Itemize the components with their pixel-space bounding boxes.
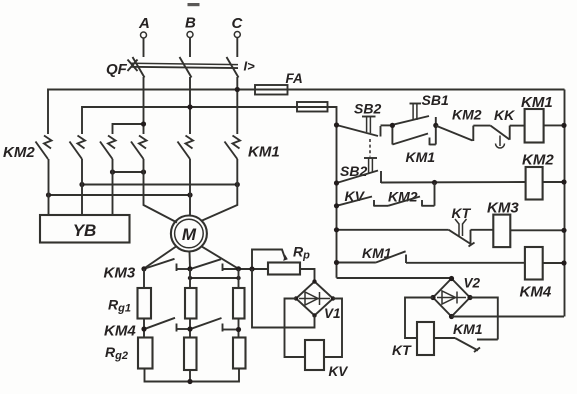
svg-text:KM4: KM4 [520,284,552,301]
resistor Rg1 phase 1 [138,288,152,319]
svg-text:I>: I> [244,59,256,74]
wire motor lead C [201,159,237,221]
svg-text:KM1: KM1 [406,149,436,165]
contactor KM4 contact 1 [145,318,190,332]
svg-text:FA: FA [286,71,303,86]
rectifier V2 [430,276,480,320]
wire V1 right to KV [324,299,342,358]
node row3 bus junction [334,227,339,232]
wire rotor column 1 middle [143,319,145,338]
wire phase A feeder to KM2 [113,124,144,134]
wire Rp to V1 top [300,269,315,282]
node row1 bus junction [334,122,339,127]
junction motor lead B [187,192,192,197]
wire KM2 output 2 to YB [81,159,83,215]
relay coil KT [392,322,434,358]
scan smudge top [188,3,200,6]
break contact KM1 at V2 [453,321,498,352]
wire rotor lead 3 [202,246,239,268]
wire C terminal to QF [236,38,238,58]
wire KM2 output 3 to YB [112,159,114,215]
wire A terminal to QF [143,38,145,57]
svg-text:SB2: SB2 [354,101,381,117]
wire phase C QF to KM1 contact [236,77,238,134]
svg-text:KM2: KM2 [522,152,554,169]
wire link KM2-2 to phase C column [82,184,237,186]
junction rotor lead 1 [141,266,146,271]
junction KM2-1 output [46,192,51,197]
wire KM1 contact to V2 right [470,298,498,340]
time relay contact KT [449,205,494,247]
resistor Rg1 phase 3 [233,288,245,319]
node row2 bus junction [334,180,339,185]
junction rotor lead 3 [236,266,241,271]
wire bus to V2 top [337,277,452,279]
svg-text:KM1: KM1 [248,144,280,161]
resistor Rg1 phase 2 [185,288,197,319]
node row2 KV branch junction [432,180,437,185]
wire rotor column 2 upper [189,269,191,288]
junction rotor lead 2 [187,266,192,271]
wire motor lead B [189,159,191,216]
contactor KM3 contact 2 [191,259,268,271]
svg-text:C: C [232,15,244,32]
wire phase B QF to KM1 contact [189,77,191,134]
contactor coil KM2 [522,152,567,200]
thermal relay contact KK [491,107,525,148]
junction KM2-2 output [79,182,84,187]
svg-text:KT: KT [392,342,412,358]
junction motor lead C [235,182,240,187]
contactor coil KM4 [520,247,567,301]
svg-text:A: A [138,15,150,32]
svg-text:SB2: SB2 [340,163,367,179]
contactor KM3 contact 1 [145,259,190,271]
svg-text:V1: V1 [324,306,341,321]
svg-text:KM3: KM3 [104,265,136,282]
fuse FA [255,71,303,95]
svg-text:KM4: KM4 [104,323,136,340]
rheostat Rp [249,244,310,275]
wire V2 left to KT coil [405,298,433,339]
wire rotor column 3 upper [238,269,240,288]
wire row3 from bus [337,229,449,231]
node row4 bus junction [334,260,339,265]
node C terminal [232,15,244,38]
motor M [171,216,207,252]
wire dashed SB2 link [369,139,371,157]
contactor KM4 contact 2 [191,318,239,332]
pushbutton SB1 start [393,92,449,125]
junction KM4 column 3 [236,327,241,332]
wire rotor lead 1 [144,246,176,268]
node junction A [141,121,146,126]
relay coil KV [305,340,348,379]
svg-text:M: M [182,225,197,244]
wire rotor column 1 upper [143,269,145,288]
contactor KM1 main contact 1 [131,136,147,160]
wire V2 bottom to right bus [452,316,565,318]
contactor KM2 main contact 1 [36,136,52,160]
wire motor lead A [144,159,178,223]
wire B terminal to QF [189,38,191,58]
wire row2 to KM2 coil [381,181,526,184]
junction column 3 link [236,276,240,280]
wire rotor star point [145,369,240,385]
circuit breaker QF [106,57,255,78]
wire phase C feeder to KM2 and FA [48,90,565,135]
fuse control circuit [297,102,328,112]
contactor KM1 main contact 2 [178,136,194,160]
svg-text:QF: QF [106,61,128,78]
junction motor lead A [141,169,146,174]
auxiliary contact KM1 parallel [392,125,435,165]
resistor Rg2 phase 2 [184,338,197,371]
junction KM2-3 output [110,169,115,174]
wire phase A QF to KM1 contact [143,77,145,134]
auxiliary contact KM2 row2 [388,183,435,207]
svg-text:B: B [185,15,196,32]
contactor KM1 main contact 3 [225,136,241,160]
svg-text:KM1: KM1 [453,321,483,337]
pushbutton SB2 start row2 [337,158,382,183]
node SB1 right [433,123,438,128]
wire V1 left to KV [285,299,306,358]
pushbutton SB2 stop row1 [337,101,393,137]
rectifier V1 [294,279,341,321]
wire rotor lead 2 [189,252,192,269]
wire rotor column 2 middle [189,319,191,338]
relay contact KV row2 [337,188,389,207]
resistor Rg2 phase 1 [138,338,153,369]
svg-text:KK: KK [494,107,515,123]
junction KM4 column 1 [141,326,146,331]
svg-text:YB: YB [73,221,97,240]
wire V1 bottom to Rp tap [252,269,315,328]
contactor coil KM1 [521,94,567,143]
junction column 2 link [188,276,192,280]
auxiliary contact KM1 row4 [337,245,525,263]
node A terminal [138,15,150,38]
junction KM4 column 2 [187,326,192,331]
wire KT coil to KM1 contact [434,337,455,339]
wire control bus left [328,107,337,278]
contactor coil KM3 [487,200,567,248]
svg-text:KT: KT [452,205,472,221]
brake YB [40,215,130,243]
wire link rotor 2 to rotor 3 [190,277,239,279]
break contact KM2 row1 [436,107,491,142]
contactor KM2 main contact 2 [70,136,86,160]
wire rotor column 3 middle [238,319,240,338]
wire phase B feeder to KM2 and control fuse [82,107,337,134]
wire link KM2-1 to phase B column [49,194,191,196]
wire link KM2-3 to phase A column [113,171,144,173]
node SB1 left [390,123,395,128]
svg-text:SB1: SB1 [422,92,449,108]
node B terminal [185,15,196,38]
node junction B [187,104,192,109]
node KV branch bus junction [334,203,339,208]
node junction C [235,87,240,92]
resistor Rg2 phase 3 [233,338,246,369]
wire control bus right [564,90,566,317]
svg-text:KV: KV [329,364,349,379]
wire KM2 output 1 to YB [48,159,50,215]
contactor KM2 main contact 3 [100,136,116,160]
svg-text:KM2: KM2 [452,107,482,123]
svg-text:KM2: KM2 [3,144,35,161]
svg-text:V2: V2 [464,276,481,291]
